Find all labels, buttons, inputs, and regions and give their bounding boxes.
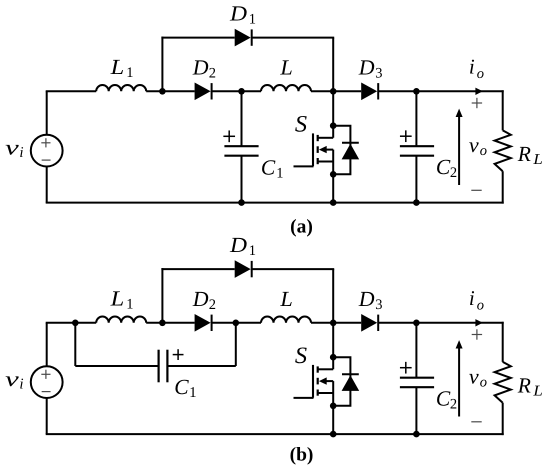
wire: source top lead (a)	[46, 91, 48, 134]
wire: load branch upper (a)	[502, 90, 504, 130]
inductor L1 (b)	[96, 317, 146, 323]
capacitor C2 (b)	[400, 377, 434, 379]
svg-text:1: 1	[126, 296, 133, 312]
svg-text:v: v	[5, 367, 20, 391]
svg-text:3: 3	[375, 297, 382, 313]
wire: riser to D1 branch (b)	[161, 268, 163, 323]
wire: main rail left segment (a)	[46, 90, 96, 92]
svg-text:i: i	[19, 145, 23, 161]
svg-text:i: i	[469, 286, 475, 310]
node: C1 on bottom rail (a)	[238, 199, 245, 206]
body diode of S (a)	[333, 126, 359, 175]
wire: load branch lower (b)	[502, 403, 504, 435]
node: switch source junction (b)	[330, 403, 337, 410]
svg-text:1: 1	[126, 65, 133, 81]
wire: load branch lower (a)	[502, 171, 504, 203]
wire: D3 to output node (a)	[378, 90, 416, 92]
wire: C1 branch right riser (b)	[235, 323, 237, 366]
node: switch drain junction (a)	[330, 122, 337, 129]
wire: top rail right of D1 (a)	[252, 37, 335, 39]
wire: D2 to L (a)	[212, 90, 261, 92]
transistor S (MOSFET) (b)	[294, 365, 334, 406]
wire: top rail left of D1 (a)	[161, 37, 234, 39]
svg-text:i: i	[19, 376, 23, 392]
svg-text:S: S	[295, 111, 307, 137]
inductor L (a)	[261, 85, 311, 91]
svg-text:L: L	[109, 287, 124, 311]
wire: C1 branch lower (a)	[241, 156, 243, 203]
node: switch column on bottom rail (a)	[330, 199, 337, 206]
diode D2 (a)	[195, 83, 211, 101]
svg-text:2: 2	[450, 397, 457, 413]
svg-text:C: C	[174, 375, 189, 399]
diode D1 (b)	[235, 260, 251, 278]
wire: C2 branch upper (a)	[415, 91, 417, 146]
svg-text:v: v	[469, 365, 480, 389]
wire: switch column lower (b)	[332, 406, 334, 434]
diode D1 (a)	[235, 29, 251, 47]
resistor RL (b)	[495, 362, 511, 403]
voltage source vi (b)	[31, 366, 63, 398]
svg-text:C: C	[436, 387, 451, 411]
svg-text:2: 2	[209, 297, 216, 313]
node: switch drain junction (b)	[330, 354, 337, 361]
svg-text:o: o	[477, 298, 484, 314]
wire: top rail left of D1 (b)	[161, 268, 234, 270]
wire: bottom rail (b)	[46, 433, 504, 435]
node: output junction top of C2 (a)	[413, 88, 420, 95]
wire: source top lead (b)	[46, 323, 48, 366]
diode D2 (b)	[195, 314, 211, 332]
svg-text:D: D	[229, 233, 248, 257]
node: C2 on bottom rail (a)	[413, 199, 420, 206]
svg-text:L: L	[532, 152, 543, 168]
voltage source vi (a)	[31, 135, 63, 167]
node: junction after D2 (a)	[238, 88, 245, 95]
wire: load branch upper (b)	[502, 322, 504, 362]
node: junction after D2 (b)	[233, 320, 240, 327]
wire: C1 branch upper (a)	[241, 91, 243, 146]
svg-text:o: o	[480, 143, 487, 159]
node: switch column on bottom rail (b)	[330, 431, 337, 438]
polarity + of C2 (a)	[400, 135, 412, 137]
svg-text:L: L	[109, 55, 124, 79]
capacitor C1 (a)	[224, 145, 258, 147]
wire: C1 branch left riser (b)	[74, 323, 76, 366]
node: switch source junction (a)	[330, 171, 337, 178]
svg-text:C: C	[436, 155, 451, 179]
wire: L to D3 (a)	[311, 90, 361, 92]
capacitor C1 (b)	[158, 350, 160, 383]
wire: switch column upper (b)	[332, 269, 334, 369]
wire: output node to load corner (b)	[416, 322, 503, 324]
svg-text:D: D	[358, 56, 375, 80]
wire: L1 to D2 (b)	[146, 322, 194, 324]
svg-text:(a): (a)	[290, 216, 313, 237]
polarity plus of vo (b)	[472, 334, 482, 336]
wire: C2 branch lower (a)	[415, 156, 417, 203]
node: switch column junction on main rail (b)	[330, 320, 337, 327]
wire: L to D3 (b)	[311, 322, 361, 324]
wire: top rail right of D1 (b)	[252, 268, 335, 270]
polarity + of C2 (b)	[400, 367, 412, 369]
wire: C2 branch upper (b)	[415, 323, 417, 378]
wire: D3 to output node (b)	[378, 322, 416, 324]
svg-text:D: D	[192, 287, 209, 311]
wire: output node to load corner (a)	[416, 90, 503, 92]
wire: C1 branch right horizontal (b)	[167, 365, 235, 367]
wire: C1 branch left horizontal (b)	[75, 365, 158, 367]
svg-text:C: C	[261, 156, 276, 180]
node: output junction top of C2 (b)	[413, 320, 420, 327]
wire: switch column upper (a)	[332, 38, 334, 138]
node: junction L1 / D2 / D1 branch (a)	[159, 88, 166, 95]
wire: source bottom lead (b)	[46, 398, 48, 434]
svg-text:S: S	[295, 343, 307, 369]
wire: C2 branch lower (b)	[415, 387, 417, 434]
svg-text:o: o	[477, 66, 484, 82]
svg-text:o: o	[480, 374, 487, 390]
svg-text:v: v	[5, 135, 20, 159]
polarity + of C1 (b)	[173, 354, 184, 356]
svg-text:L: L	[279, 56, 292, 80]
svg-text:D: D	[229, 2, 248, 26]
svg-text:R: R	[517, 374, 531, 398]
svg-text:D: D	[358, 287, 375, 311]
svg-text:v: v	[469, 133, 480, 157]
node: C2 on bottom rail (b)	[413, 431, 420, 438]
node: junction L1 / D2 / D1 branch (b)	[159, 320, 166, 327]
wire: switch column lower (a)	[332, 174, 334, 202]
inductor L (b)	[261, 317, 311, 323]
svg-text:2: 2	[209, 65, 216, 81]
voltage arrow vo (a)	[458, 116, 460, 186]
wire: bottom rail (a)	[46, 202, 504, 204]
svg-text:L: L	[279, 287, 292, 311]
polarity + of C1 (a)	[223, 135, 235, 137]
svg-text:1: 1	[249, 243, 256, 259]
wire: riser to D1 branch (a)	[161, 37, 163, 92]
diode D3 (b)	[361, 314, 377, 332]
svg-text:R: R	[517, 142, 531, 166]
voltage arrow vo (b)	[458, 347, 460, 417]
svg-text:(b): (b)	[290, 445, 314, 466]
body diode of S (b)	[333, 357, 359, 406]
polarity minus of vo (b)	[471, 421, 481, 423]
resistor RL (a)	[495, 130, 511, 171]
capacitor C2 (a)	[400, 145, 434, 147]
polarity minus of vo (a)	[471, 189, 481, 191]
diode D3 (a)	[361, 83, 377, 101]
svg-text:1: 1	[189, 385, 197, 401]
polarity plus of vo (a)	[472, 102, 482, 104]
svg-text:D: D	[192, 56, 209, 80]
wire: main rail left segment (b)	[46, 322, 96, 324]
svg-text:1: 1	[249, 11, 256, 27]
wire: source bottom lead (a)	[46, 167, 48, 203]
node: switch column junction on main rail (a)	[330, 88, 337, 95]
svg-text:2: 2	[450, 165, 457, 181]
current arrow io (a)	[475, 88, 482, 95]
wire: D2 to L (b)	[212, 322, 261, 324]
svg-text:i: i	[469, 55, 475, 79]
transistor S (MOSFET) (a)	[294, 133, 334, 174]
wire: L1 to D2 (a)	[146, 90, 194, 92]
current arrow io (b)	[475, 319, 482, 326]
svg-text:L: L	[532, 384, 543, 400]
node: C1 tap before L1 (b)	[72, 320, 79, 327]
svg-text:1: 1	[276, 166, 283, 182]
svg-text:3: 3	[375, 65, 382, 81]
inductor L1 (a)	[96, 85, 146, 91]
